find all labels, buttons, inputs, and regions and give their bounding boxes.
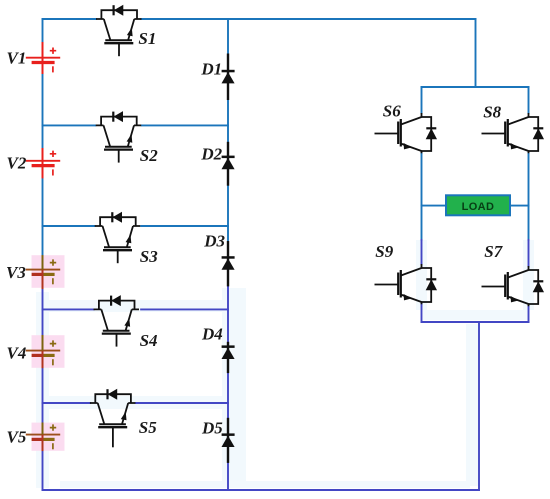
svg-text:LOAD: LOAD — [462, 201, 495, 213]
svg-text:S9: S9 — [375, 242, 393, 261]
svg-text:V1: V1 — [7, 49, 27, 68]
svg-text:S6: S6 — [383, 102, 401, 121]
svg-text:S1: S1 — [138, 29, 156, 48]
svg-text:D3: D3 — [203, 231, 225, 250]
svg-text:D4: D4 — [201, 325, 223, 344]
svg-text:S2: S2 — [140, 146, 158, 165]
svg-text:S3: S3 — [140, 247, 158, 266]
svg-text:V5: V5 — [7, 428, 27, 447]
svg-text:V3: V3 — [6, 263, 26, 282]
svg-text:D1: D1 — [200, 59, 222, 78]
svg-text:D5: D5 — [201, 419, 223, 438]
svg-text:D2: D2 — [200, 144, 222, 163]
svg-text:S7: S7 — [484, 242, 503, 261]
svg-text:S4: S4 — [140, 331, 158, 350]
svg-text:S8: S8 — [483, 103, 501, 122]
svg-text:V2: V2 — [7, 153, 27, 172]
svg-text:S5: S5 — [139, 418, 157, 437]
svg-text:V4: V4 — [7, 343, 27, 362]
